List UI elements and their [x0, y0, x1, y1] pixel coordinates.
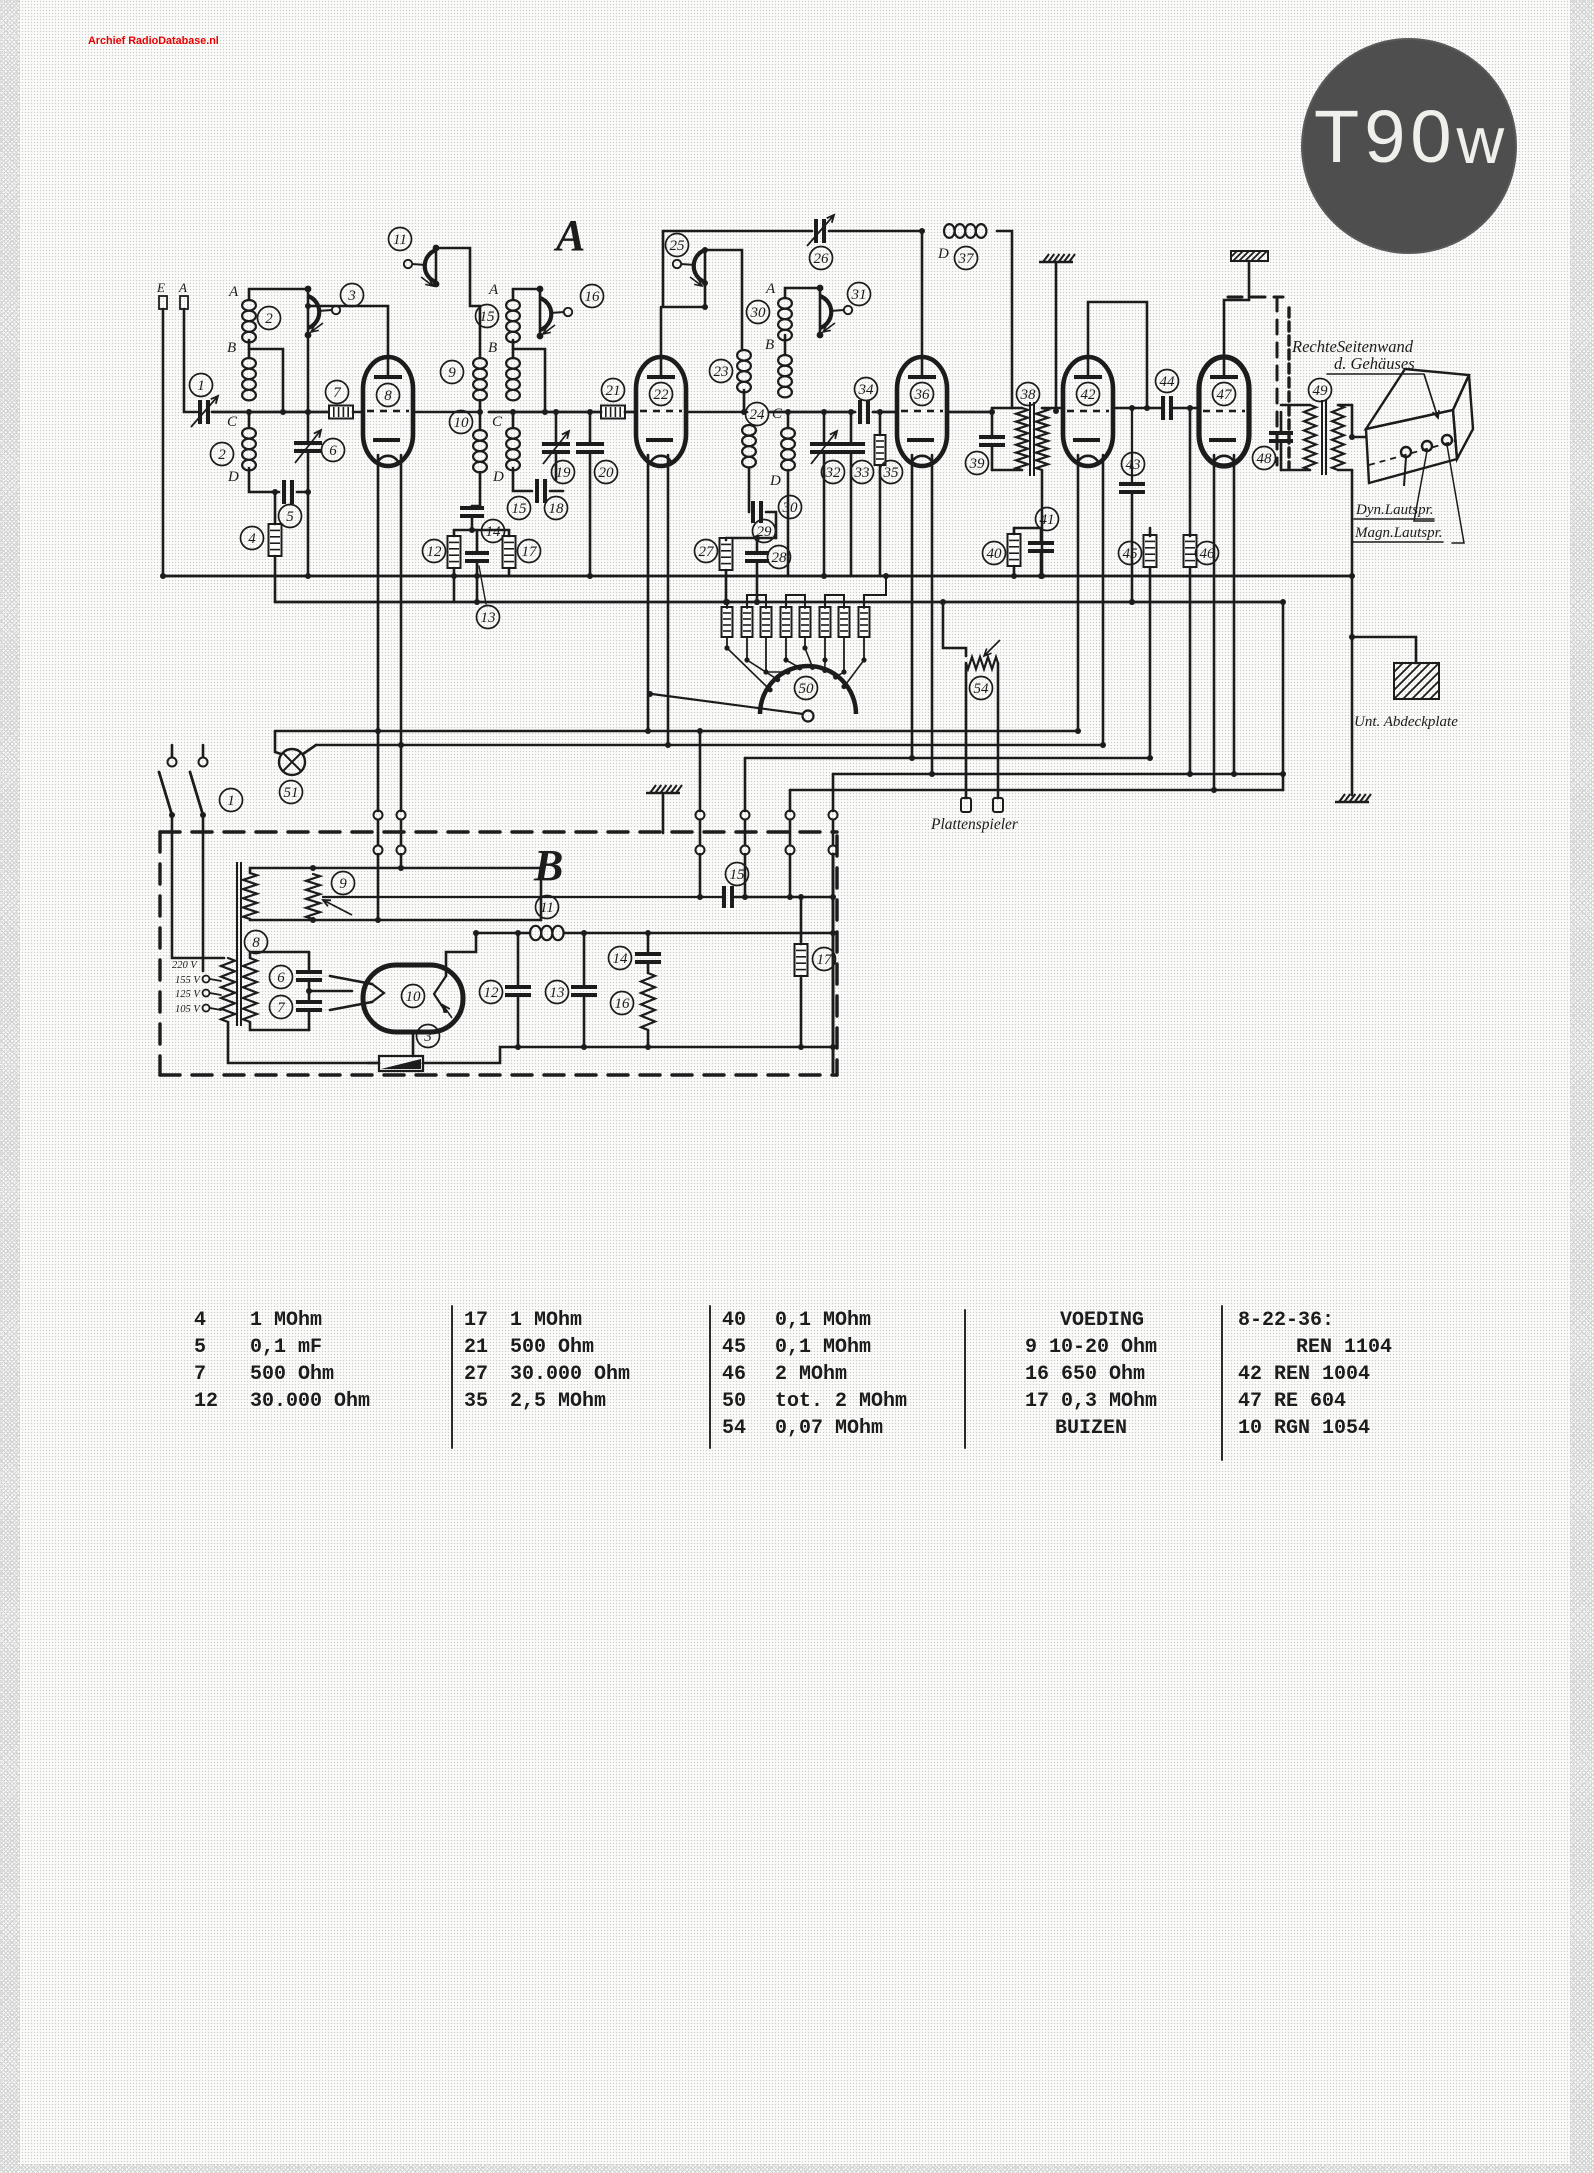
svg-text:45: 45	[722, 1336, 746, 1359]
ground bottom right	[1335, 794, 1371, 802]
wire V42 right leg	[1102, 455, 1105, 745]
nest rail 4	[833, 773, 1283, 776]
svg-text:48: 48	[1257, 451, 1273, 467]
wire T38 secondary bottom down	[1041, 470, 1044, 576]
svg-text:22: 22	[654, 387, 670, 403]
wire wiper line right	[323, 896, 722, 898]
wire lower secondary top	[250, 952, 309, 958]
wire V22 left leg	[647, 455, 650, 731]
wire pickup left	[965, 663, 968, 798]
tube V8 (RF amp REN1104)	[363, 357, 413, 466]
rail HT bottom	[163, 575, 1352, 578]
capacitor C13	[465, 553, 489, 561]
dashed shield vertical	[1276, 297, 1279, 465]
pickup terminal left	[961, 798, 971, 812]
svg-text:35: 35	[883, 465, 900, 481]
svg-text:C: C	[772, 406, 783, 422]
circled 35	[880, 461, 903, 484]
gang capacitor 16 (arc)	[540, 298, 572, 334]
wire V36 anode up	[921, 231, 924, 357]
connector plug pair on V8 left leg	[374, 811, 383, 820]
bank feed left	[726, 602, 728, 608]
table divider 3	[964, 1310, 966, 1448]
wire lamp right lead	[303, 745, 316, 754]
wire lower secondary bottom	[250, 1022, 309, 1030]
svg-text:31: 31	[851, 287, 867, 303]
wire x790 into B	[789, 854, 792, 897]
wire L30 bottom down	[787, 470, 790, 576]
wire V8 left leg into section B	[377, 854, 380, 920]
svg-text:26: 26	[814, 251, 830, 267]
table divider 2	[709, 1306, 711, 1448]
circled 32	[822, 461, 845, 484]
circled 38	[1017, 383, 1040, 406]
circled 22	[650, 383, 673, 406]
wire coil9 frame	[479, 306, 482, 358]
coil L15 upper	[506, 300, 520, 342]
svg-text:A: A	[765, 281, 776, 297]
pickup terminal right	[993, 798, 1003, 812]
wire C33 hanger	[850, 412, 853, 442]
circled 10 rectifier	[402, 985, 425, 1008]
mains switch S1 pole 2	[199, 758, 208, 767]
coil L2 mid (B winding)	[242, 358, 256, 400]
svg-text:42: 42	[1081, 387, 1097, 403]
wire coil15 A top to switch 16	[513, 289, 540, 300]
wire earth E down to bottom rail	[162, 309, 165, 576]
speaker label leaders	[1414, 451, 1434, 521]
wire C tap 2nd	[512, 412, 515, 428]
circled 6	[322, 439, 345, 462]
wire osc box left	[663, 231, 705, 307]
circled 1	[190, 374, 213, 397]
circled 17	[518, 540, 541, 563]
capacitor C33	[837, 444, 865, 452]
wire filament mid tap	[309, 990, 352, 993]
svg-text:1: 1	[197, 378, 205, 394]
svg-text:D: D	[769, 473, 781, 489]
circled 30	[747, 301, 770, 324]
wire L30 top tap	[787, 412, 790, 428]
circled 14 B	[609, 947, 632, 970]
tap circle 105	[203, 1005, 210, 1012]
coil L9	[473, 358, 487, 400]
bank resistor 3	[761, 607, 772, 637]
svg-text:12: 12	[484, 985, 500, 1001]
circled 48	[1253, 447, 1276, 470]
svg-text:A: A	[553, 211, 585, 260]
T90W logo disc	[1302, 39, 1516, 253]
wire cap 11 to coil 9	[436, 248, 480, 306]
wire T8 primary bottom	[228, 1022, 379, 1063]
capacitor C44	[1163, 396, 1171, 420]
coil L10	[473, 430, 487, 472]
circled 25	[666, 234, 689, 257]
svg-text:4: 4	[248, 531, 256, 547]
svg-text:B: B	[765, 337, 774, 353]
svg-text:5: 5	[286, 509, 294, 525]
circled 21	[602, 379, 625, 402]
switch contact segment	[307, 288, 310, 336]
coil L30 lower	[781, 428, 795, 470]
svg-text:11: 11	[393, 232, 407, 248]
transformer T38 primary	[1016, 408, 1028, 470]
svg-text:D: D	[227, 469, 239, 485]
rail B bottom left segment	[442, 1047, 833, 1063]
wire V8 plate to main line right	[413, 411, 480, 414]
svg-text:1 MOhm: 1 MOhm	[510, 1309, 582, 1332]
wire V36 left leg	[911, 455, 914, 758]
svg-text:B: B	[488, 340, 497, 356]
wire between coils 15	[512, 340, 515, 358]
svg-text:8-22-36:: 8-22-36:	[1238, 1309, 1334, 1332]
section B dashed box left	[158, 832, 161, 1075]
svg-text:40: 40	[722, 1309, 746, 1332]
fuse F3	[379, 1056, 423, 1071]
svg-text:B: B	[227, 340, 236, 356]
svg-text:25: 25	[670, 238, 686, 254]
switch 50 rotor	[803, 711, 814, 722]
circled 7 B	[270, 996, 293, 1019]
svg-text:B: B	[533, 841, 563, 890]
node line under band filter	[454, 529, 509, 532]
svg-text:21: 21	[464, 1336, 488, 1359]
svg-text:10: 10	[454, 415, 470, 431]
resistor R16 B	[641, 973, 655, 1030]
svg-text:3: 3	[423, 1029, 432, 1045]
svg-text:D: D	[937, 246, 949, 262]
circled 8 power transformer	[245, 931, 268, 954]
svg-text:35: 35	[464, 1390, 488, 1413]
rail AVC	[275, 601, 1283, 604]
svg-text:42 REN 1004: 42 REN 1004	[1238, 1363, 1370, 1386]
wire nest drop x700	[699, 731, 702, 811]
circled 51	[280, 781, 303, 804]
circled 16	[581, 285, 604, 308]
potentiometer R54	[966, 657, 998, 669]
svg-text:7: 7	[194, 1363, 206, 1386]
bank resistor 1	[722, 607, 733, 637]
svg-text:D: D	[492, 469, 504, 485]
circled 11	[389, 228, 412, 251]
svg-text:10: 10	[406, 989, 422, 1005]
svg-text:2,5 MOhm: 2,5 MOhm	[510, 1390, 606, 1413]
wire cap column B	[308, 952, 311, 970]
wire V42 to C44 to V47	[1113, 407, 1162, 410]
transformer T49 primary	[1304, 405, 1316, 470]
svg-text:Plattenspieler: Plattenspieler	[930, 816, 1019, 833]
transformer T8 core	[236, 862, 238, 1026]
circled 12	[423, 540, 446, 563]
svg-text:11: 11	[540, 900, 554, 916]
rectifier V10 (RGN1054)	[363, 965, 463, 1032]
wire V8 anode lead up and left	[308, 306, 388, 357]
resistor R21	[601, 406, 625, 419]
circled 3	[341, 284, 364, 307]
coil L37 (HF choke)	[944, 224, 986, 238]
capacitor C12 B	[505, 987, 531, 995]
circled 2	[258, 307, 281, 330]
wire V22 right leg	[667, 455, 670, 745]
mains switch S1 pole 1	[168, 758, 177, 767]
circled 9 hum pot	[332, 872, 355, 895]
svg-text:155 V: 155 V	[175, 975, 201, 986]
svg-text:37: 37	[958, 251, 976, 267]
circled 36	[911, 383, 934, 406]
wire pot54 feed	[943, 602, 966, 656]
circled 49	[1309, 379, 1332, 402]
svg-text:51: 51	[284, 785, 299, 801]
circled 1 switch	[220, 789, 243, 812]
svg-text:49: 49	[1313, 383, 1329, 399]
capacitor C15 B	[724, 886, 732, 908]
bank resistor 2 bottom lead	[746, 637, 748, 660]
gang capacitor 11 (tuning arc)	[404, 250, 436, 286]
svg-text:27: 27	[699, 544, 716, 560]
circled 40	[983, 542, 1006, 565]
wire mains pole1 into transformer	[172, 818, 224, 958]
tube V47 (output RE604)	[1199, 357, 1249, 466]
nest rail 3	[745, 757, 1150, 760]
wire x745 into B	[744, 854, 747, 897]
dashed shield inner vertical	[1287, 308, 1290, 468]
circled 30 lower	[779, 496, 802, 519]
circled 8	[377, 384, 400, 407]
capacitor C19 (variable)	[542, 444, 570, 452]
choke rail	[476, 932, 530, 935]
wire C41 column	[1040, 528, 1043, 541]
svg-text:3: 3	[347, 288, 356, 304]
wire rectifier bottom	[412, 1032, 415, 1056]
bank resistor 8	[859, 607, 870, 637]
coil L15 mid	[506, 358, 520, 400]
capacitor C14	[460, 508, 484, 516]
circled 9	[441, 361, 464, 384]
wire V47 left leg	[1213, 455, 1216, 790]
svg-text:7: 7	[277, 1000, 286, 1016]
circled 15	[476, 305, 499, 328]
svg-text:0,1 MOhm: 0,1 MOhm	[775, 1309, 871, 1332]
bank resistor 5	[800, 607, 811, 637]
nest rail 1 (dial lamp feed)	[275, 730, 1078, 733]
svg-text:13: 13	[550, 985, 565, 1001]
wire V42 anode box	[1088, 302, 1147, 408]
svg-text:REN 1104: REN 1104	[1296, 1336, 1392, 1359]
wire switch node down through C6	[307, 336, 310, 441]
wire coil9 to coil10	[479, 400, 482, 430]
svg-text:30: 30	[782, 500, 799, 516]
svg-text:13: 13	[481, 610, 496, 626]
svg-text:10 RGN 1054: 10 RGN 1054	[1238, 1417, 1370, 1440]
gang capacitor 3 (wave switch arc)	[308, 296, 340, 332]
coil L30 upper	[778, 298, 792, 340]
wire C12 column	[517, 933, 520, 985]
terminal E	[159, 296, 167, 309]
svg-text:d. Gehäuses: d. Gehäuses	[1334, 354, 1415, 373]
circled 54	[970, 677, 993, 700]
circled 50	[795, 677, 818, 700]
wire R7 to V8 grid	[353, 411, 363, 414]
svg-text:45: 45	[1123, 546, 1139, 562]
wire coil10 bottom down	[472, 472, 480, 506]
bank resistor 5 bottom lead	[804, 637, 806, 648]
wire nest drop x790	[789, 790, 792, 811]
circled 33	[851, 461, 874, 484]
wire cap18 to column	[550, 490, 563, 493]
capacitor C48	[1269, 433, 1293, 441]
resistor R35	[875, 435, 886, 465]
svg-text:T90w: T90w	[1314, 95, 1509, 178]
circled 46	[1196, 542, 1219, 565]
transformer T38 core	[1029, 402, 1031, 476]
coil L2 upper (antenna coil A-B)	[242, 300, 256, 342]
circled 11 choke	[536, 896, 559, 919]
svg-text:28: 28	[772, 550, 788, 566]
svg-text:9: 9	[339, 876, 347, 892]
resistor R17 B	[795, 944, 808, 976]
wire V8 leg right down to connector	[400, 455, 403, 811]
ground top (chassis)	[1039, 254, 1075, 262]
capacitor C39	[979, 437, 1005, 445]
wire between L30 windings	[784, 335, 787, 355]
underline Gehaeuses	[1327, 373, 1424, 375]
tube V42 (detector REN1004)	[1063, 357, 1113, 466]
wire cap 11 top contact	[435, 248, 438, 284]
svg-text:50: 50	[722, 1390, 746, 1413]
circled 42	[1077, 383, 1100, 406]
speaker 3D sketch	[1366, 369, 1473, 486]
svg-text:16: 16	[615, 996, 631, 1012]
circled 34	[855, 378, 878, 401]
wire to cover plate	[1352, 637, 1416, 663]
svg-text:17 0,3 MOhm: 17 0,3 MOhm	[1025, 1390, 1157, 1413]
connector pair x745	[741, 811, 750, 820]
tube V22 (mixer REN1104)	[636, 357, 686, 466]
wire x700 into B	[699, 854, 702, 897]
capacitor C1 (variable antenna cap)	[200, 400, 208, 424]
transformer T49 core	[1321, 400, 1323, 475]
wire L30 A top to switch 31	[785, 288, 820, 298]
svg-text:tot. 2 MOhm: tot. 2 MOhm	[775, 1390, 907, 1413]
svg-text:23: 23	[714, 364, 729, 380]
coil L15 lower C-D	[506, 428, 520, 470]
wire V36 right leg	[931, 455, 934, 774]
circled 15 lower	[508, 497, 531, 520]
svg-text:30.000 Ohm: 30.000 Ohm	[510, 1363, 630, 1386]
wire cap15 right	[734, 896, 833, 899]
main grid line left	[212, 411, 331, 414]
svg-text:15: 15	[730, 867, 746, 883]
capacitor C13 B	[571, 987, 597, 995]
circled 6 B	[270, 966, 293, 989]
resistor R46	[1184, 535, 1197, 567]
wire lamp left lead	[275, 731, 281, 754]
svg-text:7: 7	[333, 385, 342, 401]
svg-text:6: 6	[277, 970, 285, 986]
wire V22 plate right	[686, 411, 747, 414]
svg-text:46: 46	[1200, 546, 1216, 562]
wire C20 hanger	[589, 412, 592, 442]
svg-text:27: 27	[464, 1363, 488, 1386]
coil L23	[737, 350, 751, 392]
svg-text:12: 12	[194, 1390, 218, 1413]
transformer T49 secondary	[1332, 405, 1344, 470]
svg-text:2: 2	[265, 311, 273, 327]
svg-text:40: 40	[987, 546, 1003, 562]
circled 41	[1036, 508, 1059, 531]
capacitor C41	[1028, 543, 1054, 551]
transformer T8 lower secondary	[243, 958, 257, 1022]
circled 18	[545, 497, 568, 520]
wire C tap	[248, 412, 251, 428]
svg-text:17: 17	[817, 952, 834, 968]
bank resistor 7	[839, 607, 850, 637]
rectifier filament leads	[330, 976, 372, 984]
section B dashed box right	[835, 836, 838, 1075]
svg-text:54: 54	[974, 681, 990, 697]
svg-text:47: 47	[1217, 387, 1234, 403]
svg-text:36: 36	[914, 387, 931, 403]
svg-text:19: 19	[556, 465, 572, 481]
bank top links	[747, 595, 766, 608]
svg-text:14: 14	[613, 951, 629, 967]
svg-text:9: 9	[448, 365, 456, 381]
svg-text:34: 34	[858, 382, 875, 398]
switch 50 arc	[760, 666, 856, 714]
svg-text:0,07 MOhm: 0,07 MOhm	[775, 1417, 883, 1440]
capacitor C18	[537, 479, 545, 503]
svg-text:21: 21	[606, 383, 621, 399]
tap circle 155	[203, 976, 210, 983]
resistor R4	[269, 524, 282, 556]
rectifier anode	[434, 976, 446, 1012]
circled 13 B	[546, 981, 569, 1004]
wire cap14 column	[471, 506, 474, 507]
svg-text:E: E	[156, 280, 165, 295]
svg-text:VOEDING: VOEDING	[1060, 1309, 1144, 1332]
circled 45	[1119, 542, 1142, 565]
arrow case wall to speaker	[1424, 374, 1439, 418]
svg-text:12: 12	[427, 544, 443, 560]
resistor R17	[503, 536, 516, 568]
oscillator top line	[663, 230, 812, 233]
wire T49 top	[1281, 404, 1310, 407]
bank resistor 8 bottom lead	[863, 637, 865, 660]
gang capacitor 31 (arc)	[820, 296, 852, 332]
svg-text:8: 8	[384, 388, 392, 404]
circled 19	[552, 461, 575, 484]
connector pair x700	[696, 811, 705, 820]
wire C48 column	[1280, 412, 1283, 431]
circled 28	[768, 546, 791, 569]
wire T38 secondary to V42	[1042, 407, 1064, 410]
circled 24	[746, 403, 769, 426]
capacitor C7 B	[296, 1002, 322, 1010]
svg-text:20: 20	[599, 465, 615, 481]
circled 16 B	[611, 992, 634, 1015]
svg-text:16 650 Ohm: 16 650 Ohm	[1025, 1363, 1145, 1386]
wire rectifier anode out	[446, 933, 476, 976]
wire V22 anode up to oscillator box	[660, 307, 663, 357]
svg-text:105 V: 105 V	[175, 1004, 201, 1015]
svg-text:24: 24	[750, 407, 766, 423]
wire B tap 2nd filter	[513, 349, 545, 412]
wire T49 bottom	[1281, 469, 1310, 472]
circled 27	[695, 540, 718, 563]
bank resistor 6 bottom lead	[824, 637, 826, 660]
circled 20	[595, 461, 618, 484]
svg-text:Magn.Lautspr.: Magn.Lautspr.	[1354, 525, 1443, 541]
